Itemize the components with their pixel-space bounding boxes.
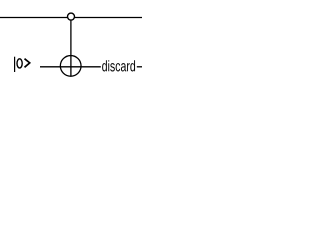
wire: vertical connector from control to target bbox=[70, 18, 72, 77]
control (open circle, 0-control) bbox=[68, 13, 75, 20]
discard label bbox=[102, 60, 135, 71]
wire stub after discard bbox=[137, 66, 142, 68]
top qubit wire bbox=[0, 17, 142, 19]
bottom ancilla wire (left segment) bbox=[40, 66, 101, 68]
CNOT target X (circle-plus) bbox=[60, 56, 81, 77]
node |0> ket label bbox=[15, 57, 30, 72]
